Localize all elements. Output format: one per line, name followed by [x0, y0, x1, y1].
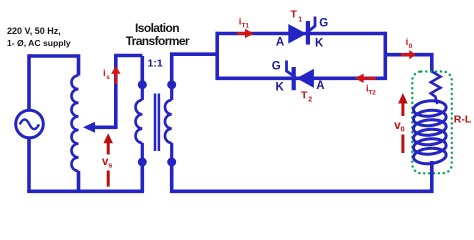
wire: source bottom vertical	[27, 138, 31, 193]
label i_s	[103, 68, 110, 81]
label v_s	[102, 156, 112, 170]
svg-text:K: K	[276, 82, 285, 94]
current arrow i_T2	[355, 74, 376, 83]
svg-text:K: K	[315, 37, 324, 49]
wire: autotransformer top lead	[77, 54, 81, 75]
junction: secondary top node	[167, 80, 176, 89]
wire: primary top vertical	[141, 56, 145, 85]
svg-text:A: A	[276, 36, 284, 48]
junction: primary bottom node	[138, 158, 147, 167]
svg-text:s: s	[108, 161, 112, 170]
transformer secondary winding	[165, 85, 172, 162]
svg-text:0: 0	[409, 43, 413, 50]
wire: wiper vertical up	[114, 56, 118, 130]
svg-text:T: T	[291, 9, 298, 21]
wire: top branch (T1)	[216, 32, 388, 36]
wire: secondary bottom vertical	[170, 162, 174, 193]
svg-text:1: 1	[298, 16, 302, 23]
svg-text:220 V, 50 Hz,: 220 V, 50 Hz,	[7, 26, 61, 36]
wiper tap arrow into winding	[83, 122, 116, 133]
svg-text:s: s	[106, 74, 110, 81]
wire: primary bottom vertical	[141, 162, 145, 193]
label i_T2	[366, 83, 376, 96]
current arrow i_0	[401, 50, 416, 59]
voltage arrow v_s	[103, 133, 113, 186]
junction: secondary bottom node	[167, 158, 176, 167]
svg-text:A: A	[316, 80, 324, 92]
svg-text:R-L: R-L	[454, 113, 472, 125]
current arrow i_s	[111, 66, 121, 84]
wire: primary-side bottom rail	[27, 190, 144, 194]
wire: bridge left rail	[215, 32, 219, 80]
AC source V1	[16, 110, 44, 138]
svg-text:Transformer: Transformer	[126, 34, 190, 48]
junction: primary top node	[138, 80, 147, 89]
label T2	[301, 90, 312, 104]
svg-text:1:1: 1:1	[148, 58, 163, 70]
svg-text:1- Ø, AC supply: 1- Ø, AC supply	[7, 38, 71, 48]
wire: secondary top vertical	[170, 52, 174, 86]
inductor: autotransformer winding	[72, 76, 79, 171]
inductor L	[413, 99, 447, 165]
resistor R	[431, 72, 441, 105]
wire: source top vertical	[27, 54, 31, 111]
svg-text:0: 0	[401, 124, 405, 133]
wire: left loop top (source to autotransformer)	[29, 54, 79, 58]
svg-text:2: 2	[308, 97, 312, 104]
wire: autotransformer bottom lead	[77, 171, 81, 191]
transformer core	[155, 94, 159, 152]
svg-text:T: T	[301, 90, 308, 102]
label: 220 V, 50 Hz, 1-phase AC supply	[7, 26, 71, 48]
label i_T1	[239, 17, 250, 30]
wire: secondary top to bridge	[170, 52, 219, 56]
wire: secondary-side bottom rail	[170, 190, 434, 194]
wire: bottom branch (T2)	[216, 77, 388, 81]
svg-text:Isolation: Isolation	[135, 21, 179, 35]
wire: load top vertical	[430, 53, 434, 73]
wire: bridge right rail	[383, 32, 387, 80]
wire: output to load	[384, 53, 434, 57]
label: Isolation Transformer	[126, 21, 190, 48]
thyristor T2	[287, 61, 314, 91]
wire: wiper to transformer primary top	[114, 54, 142, 58]
label v_0	[394, 120, 404, 133]
svg-text:G: G	[272, 61, 281, 73]
label T1	[291, 9, 303, 24]
svg-text:T2: T2	[368, 90, 376, 97]
load enclosure (green dotted box)	[412, 72, 452, 174]
svg-text:G: G	[319, 17, 328, 29]
label i_0	[406, 37, 413, 50]
voltage arrow v_0	[398, 93, 408, 153]
transformer primary winding	[136, 85, 143, 162]
wire: load bottom vertical	[430, 161, 434, 193]
current arrow i_T1	[237, 29, 254, 38]
thyristor T1	[288, 17, 315, 45]
svg-text:T1: T1	[242, 23, 250, 30]
